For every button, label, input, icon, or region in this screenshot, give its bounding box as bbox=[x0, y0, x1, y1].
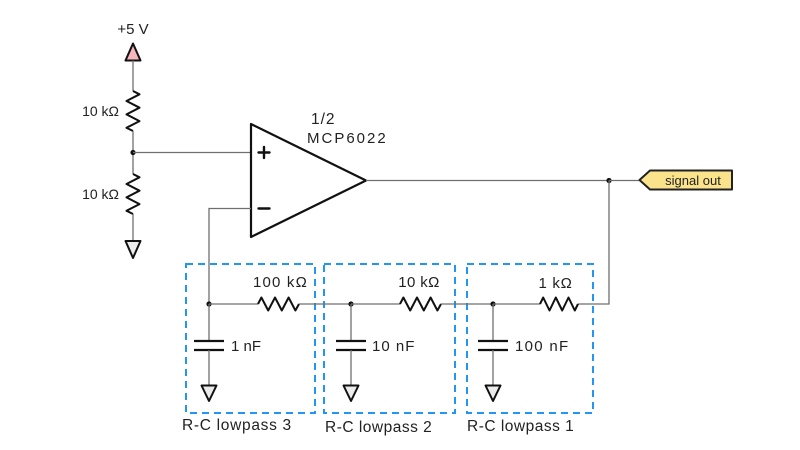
op-amp + pin mark bbox=[259, 147, 270, 158]
capacitor 1 nF bbox=[194, 341, 224, 350]
svg-text:R-C lowpass 1: R-C lowpass 1 bbox=[467, 418, 574, 435]
capacitor 100 nF bbox=[478, 341, 508, 350]
box R-C lowpass 3 bbox=[186, 264, 315, 413]
svg-text:100 nF: 100 nF bbox=[515, 338, 570, 355]
node output junction bbox=[606, 178, 611, 183]
wire node C to R1b bbox=[493, 303, 540, 305]
svg-text:R-C lowpass 3: R-C lowpass 3 bbox=[182, 417, 292, 434]
wire feedback from − input bbox=[209, 209, 251, 305]
op-amp − pin mark bbox=[259, 207, 270, 209]
svg-text:1 kΩ: 1 kΩ bbox=[538, 275, 572, 292]
box R-C lowpass 1 bbox=[467, 264, 593, 413]
resistor 100 kΩ bbox=[258, 298, 299, 311]
wire output down to lowpass chain bbox=[578, 181, 609, 305]
power symbol +5V bbox=[126, 44, 141, 61]
box R-C lowpass 2 bbox=[324, 264, 455, 413]
svg-text:MCP6022: MCP6022 bbox=[307, 130, 388, 147]
resistor 10 kΩ upper bbox=[127, 91, 140, 131]
node divider junction bbox=[130, 150, 135, 155]
resistor 10 kΩ lower bbox=[127, 174, 140, 214]
ground lowpass1 bbox=[486, 386, 501, 402]
node C lowpass1 bbox=[490, 301, 495, 306]
wire node to flag bbox=[609, 180, 640, 182]
wire node A to R3 bbox=[209, 303, 258, 305]
wire vdd to R1 bbox=[132, 61, 134, 92]
wire R2b to node C bbox=[441, 303, 493, 305]
svg-text:signal out: signal out bbox=[665, 173, 721, 188]
wire node B to R2b bbox=[351, 303, 400, 305]
ground lowpass3 bbox=[202, 386, 217, 402]
wire C2 to ground bbox=[350, 350, 352, 385]
svg-text:1/2: 1/2 bbox=[311, 111, 336, 128]
svg-text:1 nF: 1 nF bbox=[231, 338, 261, 355]
wire node C to C1 bbox=[492, 304, 494, 340]
svg-text:10 kΩ: 10 kΩ bbox=[398, 274, 440, 291]
wire R2 to ground bbox=[132, 214, 134, 241]
wire R1 to R2 bbox=[132, 131, 134, 174]
svg-text:10 nF: 10 nF bbox=[372, 338, 415, 355]
node B lowpass2 bbox=[348, 301, 353, 306]
svg-text:R-C lowpass 2: R-C lowpass 2 bbox=[325, 419, 432, 436]
ground divider bbox=[126, 241, 141, 258]
resistor 10 kΩ (lowpass2) bbox=[400, 298, 441, 311]
wire R3 to node B bbox=[299, 303, 351, 305]
svg-text:+5 V: +5 V bbox=[117, 21, 148, 38]
resistor 1 kΩ bbox=[540, 298, 578, 311]
wire divider node to op-amp + input bbox=[133, 152, 251, 154]
node A lowpass3 bbox=[206, 301, 211, 306]
op-amp U1 MCP6022 bbox=[251, 124, 366, 237]
wire C3 to ground bbox=[208, 350, 210, 385]
flag signal out bbox=[640, 171, 733, 190]
svg-text:10 kΩ: 10 kΩ bbox=[82, 103, 119, 119]
capacitor 10 nF bbox=[336, 341, 366, 350]
wire C1 to ground bbox=[492, 350, 494, 385]
svg-text:10 kΩ: 10 kΩ bbox=[82, 186, 119, 202]
wire node A to C3 bbox=[208, 304, 210, 340]
wire node B to C2 bbox=[350, 304, 352, 340]
wire op-amp output bbox=[366, 180, 609, 182]
ground lowpass2 bbox=[344, 386, 359, 402]
svg-text:100 kΩ: 100 kΩ bbox=[253, 274, 308, 291]
